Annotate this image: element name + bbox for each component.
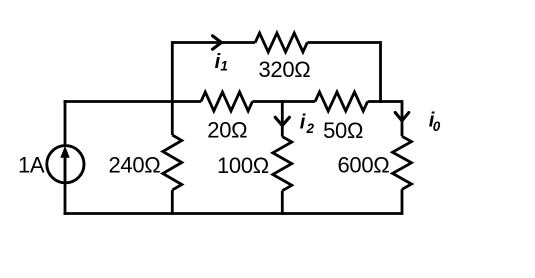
svg-text:600Ω: 600Ω	[338, 152, 390, 177]
svg-text:0: 0	[433, 119, 441, 134]
svg-text:20Ω: 20Ω	[207, 118, 247, 143]
svg-text:240Ω: 240Ω	[109, 152, 161, 177]
svg-text:320Ω: 320Ω	[259, 57, 311, 82]
svg-text:i: i	[300, 112, 306, 134]
svg-text:50Ω: 50Ω	[323, 118, 363, 143]
svg-text:1: 1	[220, 58, 228, 73]
svg-text:1A: 1A	[18, 152, 45, 177]
svg-text:100Ω: 100Ω	[217, 153, 269, 178]
svg-text:2: 2	[306, 121, 315, 136]
